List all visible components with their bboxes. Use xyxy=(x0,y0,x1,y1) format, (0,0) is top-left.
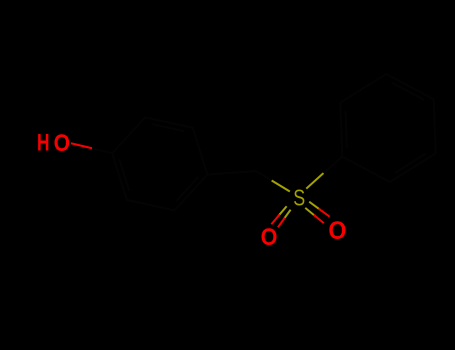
svg-text:O: O xyxy=(261,223,278,250)
svg-text:S: S xyxy=(293,186,305,212)
svg-text:O: O xyxy=(54,130,70,157)
svg-text:O: O xyxy=(328,217,346,245)
svg-text:H: H xyxy=(37,130,49,156)
